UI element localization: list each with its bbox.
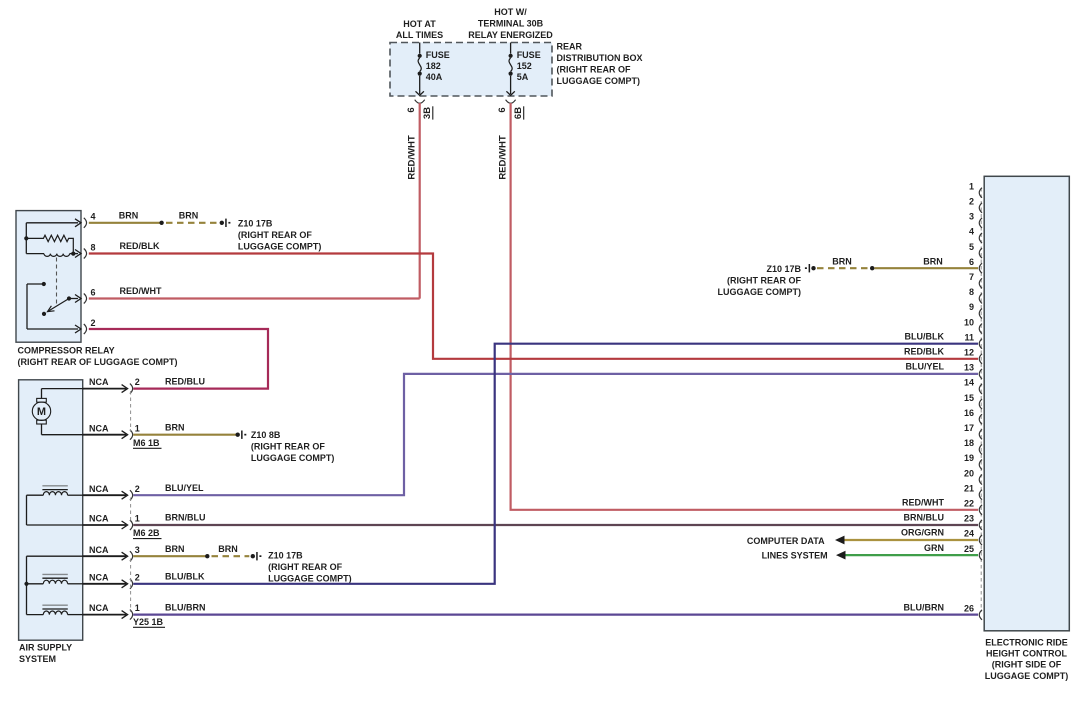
wire BLU/BLK to pin 11 <box>133 331 978 583</box>
ECU pin 18 <box>964 438 982 454</box>
ECU pin 21 <box>964 483 982 499</box>
svg-text:1: 1 <box>135 423 140 433</box>
ECU pin 4 <box>969 227 982 243</box>
rear distribution box <box>390 42 643 97</box>
air supply connector pin 1 at y=434.7 <box>83 423 140 439</box>
svg-text:BRN: BRN <box>218 544 238 554</box>
svg-text:BRN: BRN <box>832 256 852 266</box>
wire BRN to ground Z10 8B <box>133 422 237 434</box>
svg-text:BRN: BRN <box>119 211 139 221</box>
svg-text:Z10 8B: Z10 8B <box>251 430 281 440</box>
label RED/WHT at pin 22 <box>902 498 944 508</box>
svg-text:(RIGHT SIDE OF: (RIGHT SIDE OF <box>992 660 1062 670</box>
svg-text:AIR SUPPLY: AIR SUPPLY <box>19 643 72 653</box>
air supply system box <box>19 380 83 664</box>
svg-text:16: 16 <box>964 408 974 418</box>
ground splice Z10 8B <box>236 430 335 463</box>
svg-text:FUSE: FUSE <box>517 50 541 60</box>
node HOT AT ALL TIMES <box>396 19 443 40</box>
node COMPUTER DATA LINES SYSTEM <box>747 536 828 561</box>
svg-text:BRN: BRN <box>165 544 185 554</box>
svg-text:(RIGHT REAR OF LUGGAGE COMPT): (RIGHT REAR OF LUGGAGE COMPT) <box>18 357 178 367</box>
ECU pin 1 <box>969 181 982 197</box>
svg-text:BLU/YEL: BLU/YEL <box>165 483 204 493</box>
svg-text:BRN/BLU: BRN/BLU <box>904 513 945 523</box>
ground splice Z10 17B (left) <box>220 218 322 251</box>
svg-text:21: 21 <box>964 483 974 493</box>
svg-text:1: 1 <box>969 181 974 191</box>
svg-text:RED/BLU: RED/BLU <box>165 376 205 386</box>
ECU pin 25 <box>964 544 982 560</box>
svg-text:17: 17 <box>964 423 974 433</box>
svg-text:COMPUTER DATA: COMPUTER DATA <box>747 536 825 546</box>
ECU pin 13 <box>964 363 982 379</box>
relay pin 6 <box>75 287 96 303</box>
ECU pin 8 <box>969 287 982 303</box>
svg-text:12: 12 <box>964 348 974 358</box>
svg-text:20: 20 <box>964 468 974 478</box>
svg-text:M6 1B: M6 1B <box>133 438 160 448</box>
svg-text:2: 2 <box>969 197 974 207</box>
air supply connector pin 2 at y=583.8 <box>83 572 140 588</box>
ECU pin 7 <box>969 272 982 288</box>
ECU pin 23 <box>964 514 982 530</box>
svg-text:LUGGAGE COMPT): LUGGAGE COMPT) <box>985 671 1069 681</box>
solenoid L3 (Y25 pin 1) <box>27 605 83 614</box>
ECU pin 6 <box>969 257 982 273</box>
svg-text:6: 6 <box>969 257 974 267</box>
svg-text:SYSTEM: SYSTEM <box>19 654 56 664</box>
svg-text:3: 3 <box>969 212 974 222</box>
svg-text:LINES SYSTEM: LINES SYSTEM <box>762 551 828 561</box>
svg-text:182: 182 <box>426 61 441 71</box>
wire RED/BLU relay pin 2 to air supply <box>89 329 268 389</box>
svg-text:15: 15 <box>964 393 974 403</box>
svg-text:Z10 17B: Z10 17B <box>268 550 303 560</box>
svg-text:TERMINAL 30B: TERMINAL 30B <box>478 19 544 29</box>
svg-text:2: 2 <box>135 572 140 582</box>
svg-text:(RIGHT REAR OF: (RIGHT REAR OF <box>251 441 325 451</box>
electronic ride height control module <box>984 176 1069 681</box>
air supply connector pin 1 at y=525.0 <box>83 514 140 530</box>
svg-text:(RIGHT REAR OF: (RIGHT REAR OF <box>557 65 631 75</box>
wire BRN relay pin 4 to ground Z10 17B <box>89 211 218 225</box>
svg-text:4: 4 <box>969 227 974 237</box>
svg-text:DISTRIBUTION BOX: DISTRIBUTION BOX <box>557 53 643 63</box>
ECU pin 2 <box>969 197 982 213</box>
svg-text:BLU/BLK: BLU/BLK <box>165 572 205 582</box>
wire BRN/BLU to pin 23 <box>133 513 978 525</box>
svg-text:6B: 6B <box>513 107 524 119</box>
svg-text:9: 9 <box>969 302 974 312</box>
svg-text:M: M <box>37 406 46 418</box>
svg-text:NCA: NCA <box>89 423 109 433</box>
svg-text:HOT W/: HOT W/ <box>494 7 527 17</box>
svg-text:ALL TIMES: ALL TIMES <box>396 30 443 40</box>
connector M6 2B label <box>133 528 162 538</box>
svg-text:11: 11 <box>964 332 974 342</box>
air supply connector pin 3 at y=556.2 <box>83 545 140 561</box>
ECU pin 16 <box>964 408 982 424</box>
svg-text:26: 26 <box>964 604 974 614</box>
svg-text:LUGGAGE COMPT): LUGGAGE COMPT) <box>557 76 641 86</box>
motor M (compressor) <box>32 389 82 435</box>
ECU pin 24 <box>964 529 982 545</box>
svg-text:40A: 40A <box>426 72 443 82</box>
svg-text:1: 1 <box>135 514 140 524</box>
svg-text:2: 2 <box>135 377 140 387</box>
wire RED/WHT relay pin 6 <box>89 286 420 299</box>
svg-text:152: 152 <box>517 61 532 71</box>
svg-text:BLU/BRN: BLU/BRN <box>165 602 206 612</box>
air supply connector pin 2 at y=495.2 <box>83 484 140 500</box>
svg-text:RED/BLK: RED/BLK <box>904 347 944 357</box>
svg-text:7: 7 <box>969 272 974 282</box>
ECU pin 3 <box>969 212 982 228</box>
relay switch <box>27 282 78 329</box>
compressor relay K1 <box>16 211 178 367</box>
svg-text:19: 19 <box>964 453 974 463</box>
wire GRN pin 25 computer data <box>836 543 978 560</box>
svg-text:HOT AT: HOT AT <box>403 19 436 29</box>
air supply connector pin 2 at y=388.6 <box>83 377 140 393</box>
fusebox connector pin 3B <box>406 100 433 120</box>
fusebox connector pin 6B <box>497 100 524 120</box>
air supply internal wire to Y25 <box>24 556 82 614</box>
fuse F182 40A <box>416 43 450 96</box>
connector Y25 1B label <box>133 617 165 627</box>
svg-text:BRN: BRN <box>165 422 185 432</box>
svg-text:RELAY ENERGIZED: RELAY ENERGIZED <box>468 30 553 40</box>
svg-text:(RIGHT REAR OF: (RIGHT REAR OF <box>268 562 342 572</box>
svg-text:Y25 1B: Y25 1B <box>133 617 164 627</box>
svg-text:NCA: NCA <box>89 484 109 494</box>
svg-text:LUGGAGE COMPT): LUGGAGE COMPT) <box>718 287 802 297</box>
wire RED/WHT from fuse 152 to pin 22 <box>498 103 978 510</box>
ECU pin 20 <box>964 468 982 484</box>
relay pin 2 <box>75 318 96 334</box>
ECU pin 14 <box>964 378 982 394</box>
relay coil and resistor <box>24 223 78 305</box>
svg-text:REAR: REAR <box>557 42 583 52</box>
svg-text:LUGGAGE COMPT): LUGGAGE COMPT) <box>268 573 352 583</box>
ECU pin 12 <box>964 348 982 364</box>
wire BRN pin 6 to ground Z10 17B (right) <box>817 256 978 270</box>
svg-text:ELECTRONIC RIDE: ELECTRONIC RIDE <box>985 638 1068 648</box>
ECU pin 9 <box>969 302 982 318</box>
svg-text:5A: 5A <box>517 72 529 82</box>
svg-text:8: 8 <box>969 287 974 297</box>
wire RED/BLK relay pin 8 to pin 12 <box>89 241 978 359</box>
fuse F152 5A <box>506 43 540 96</box>
svg-text:NCA: NCA <box>89 377 109 387</box>
svg-text:Z10 17B: Z10 17B <box>238 218 273 228</box>
wire ORG/GRN pin 24 computer data <box>835 528 978 545</box>
svg-text:LUGGAGE COMPT): LUGGAGE COMPT) <box>238 241 322 251</box>
ECU pin 26 <box>964 604 982 620</box>
ECU pin 10 <box>964 317 982 333</box>
svg-text:13: 13 <box>964 363 974 373</box>
svg-text:BLU/BRN: BLU/BRN <box>904 602 945 612</box>
svg-text:(RIGHT REAR OF: (RIGHT REAR OF <box>238 230 312 240</box>
svg-text:23: 23 <box>964 514 974 524</box>
relay pin 8 <box>75 242 96 258</box>
wire BRN to ground Z10 17B (air supply) <box>133 544 249 559</box>
svg-text:1: 1 <box>135 603 140 613</box>
svg-text:RED/WHT: RED/WHT <box>120 286 162 296</box>
node HOT W/ TERMINAL 30B RELAY ENERGIZED <box>468 7 553 40</box>
wire BLU/BRN to pin 26 <box>133 602 978 614</box>
ground splice Z10 17B (air supply) <box>251 550 352 583</box>
solenoid L1 (M6 2B) <box>27 486 83 525</box>
svg-text:FUSE: FUSE <box>426 50 450 60</box>
relay pin 4 <box>75 212 96 228</box>
svg-text:RED/WHT: RED/WHT <box>498 135 509 180</box>
svg-text:RED/BLK: RED/BLK <box>120 241 160 251</box>
svg-text:NCA: NCA <box>89 514 109 524</box>
svg-text:NCA: NCA <box>89 572 109 582</box>
svg-text:8: 8 <box>91 242 96 252</box>
connector dashed lines <box>130 391 132 612</box>
svg-text:BRN: BRN <box>923 256 943 266</box>
svg-text:2: 2 <box>135 484 140 494</box>
svg-text:3: 3 <box>135 545 140 555</box>
ECU pin 15 <box>964 393 982 409</box>
ECU pin 22 <box>964 499 982 515</box>
svg-text:BLU/YEL: BLU/YEL <box>905 362 944 372</box>
svg-text:18: 18 <box>964 438 974 448</box>
svg-text:5: 5 <box>969 242 974 252</box>
svg-text:GRN: GRN <box>924 543 944 553</box>
ECU pin 11 <box>964 332 982 348</box>
connector M6 1B label <box>133 438 162 448</box>
svg-text:COMPRESSOR RELAY: COMPRESSOR RELAY <box>18 346 115 356</box>
air supply connector pin 1 at y=614.6 <box>83 603 140 619</box>
svg-text:22: 22 <box>964 499 974 509</box>
svg-text:BRN: BRN <box>179 211 199 221</box>
ECU pin 17 <box>964 423 982 439</box>
svg-text:24: 24 <box>964 529 974 539</box>
svg-text:RED/WHT: RED/WHT <box>407 135 418 180</box>
svg-text:6: 6 <box>91 287 96 297</box>
svg-text:4: 4 <box>91 212 96 222</box>
svg-text:M6 2B: M6 2B <box>133 528 160 538</box>
svg-text:3B: 3B <box>422 107 433 119</box>
svg-text:LUGGAGE COMPT): LUGGAGE COMPT) <box>251 453 335 463</box>
wire BLU/YEL to pin 13 <box>133 362 978 496</box>
ECU connector dashed line <box>980 188 982 612</box>
ECU pin 5 <box>969 242 982 258</box>
svg-text:10: 10 <box>964 317 974 327</box>
svg-text:(RIGHT REAR OF: (RIGHT REAR OF <box>727 276 801 286</box>
label RED/BLK at pin 12 <box>904 347 944 357</box>
svg-text:2: 2 <box>91 318 96 328</box>
svg-text:Z10 17B: Z10 17B <box>766 264 801 274</box>
svg-text:BRN/BLU: BRN/BLU <box>165 513 206 523</box>
solenoid L2 (Y25 pin 2) <box>27 574 83 583</box>
wire RED/WHT from fuse 182 <box>407 103 420 299</box>
svg-text:NCA: NCA <box>89 545 109 555</box>
svg-text:6: 6 <box>497 107 508 112</box>
svg-text:25: 25 <box>964 544 974 554</box>
svg-text:RED/WHT: RED/WHT <box>902 498 944 508</box>
svg-text:HEIGHT CONTROL: HEIGHT CONTROL <box>986 649 1067 659</box>
ground splice Z10 17B (right) <box>718 264 816 297</box>
ECU pin 19 <box>964 453 982 469</box>
svg-text:ORG/GRN: ORG/GRN <box>901 528 944 538</box>
svg-text:BLU/BLK: BLU/BLK <box>905 331 945 341</box>
svg-text:6: 6 <box>406 107 417 112</box>
svg-text:14: 14 <box>964 378 974 388</box>
svg-text:NCA: NCA <box>89 603 109 613</box>
